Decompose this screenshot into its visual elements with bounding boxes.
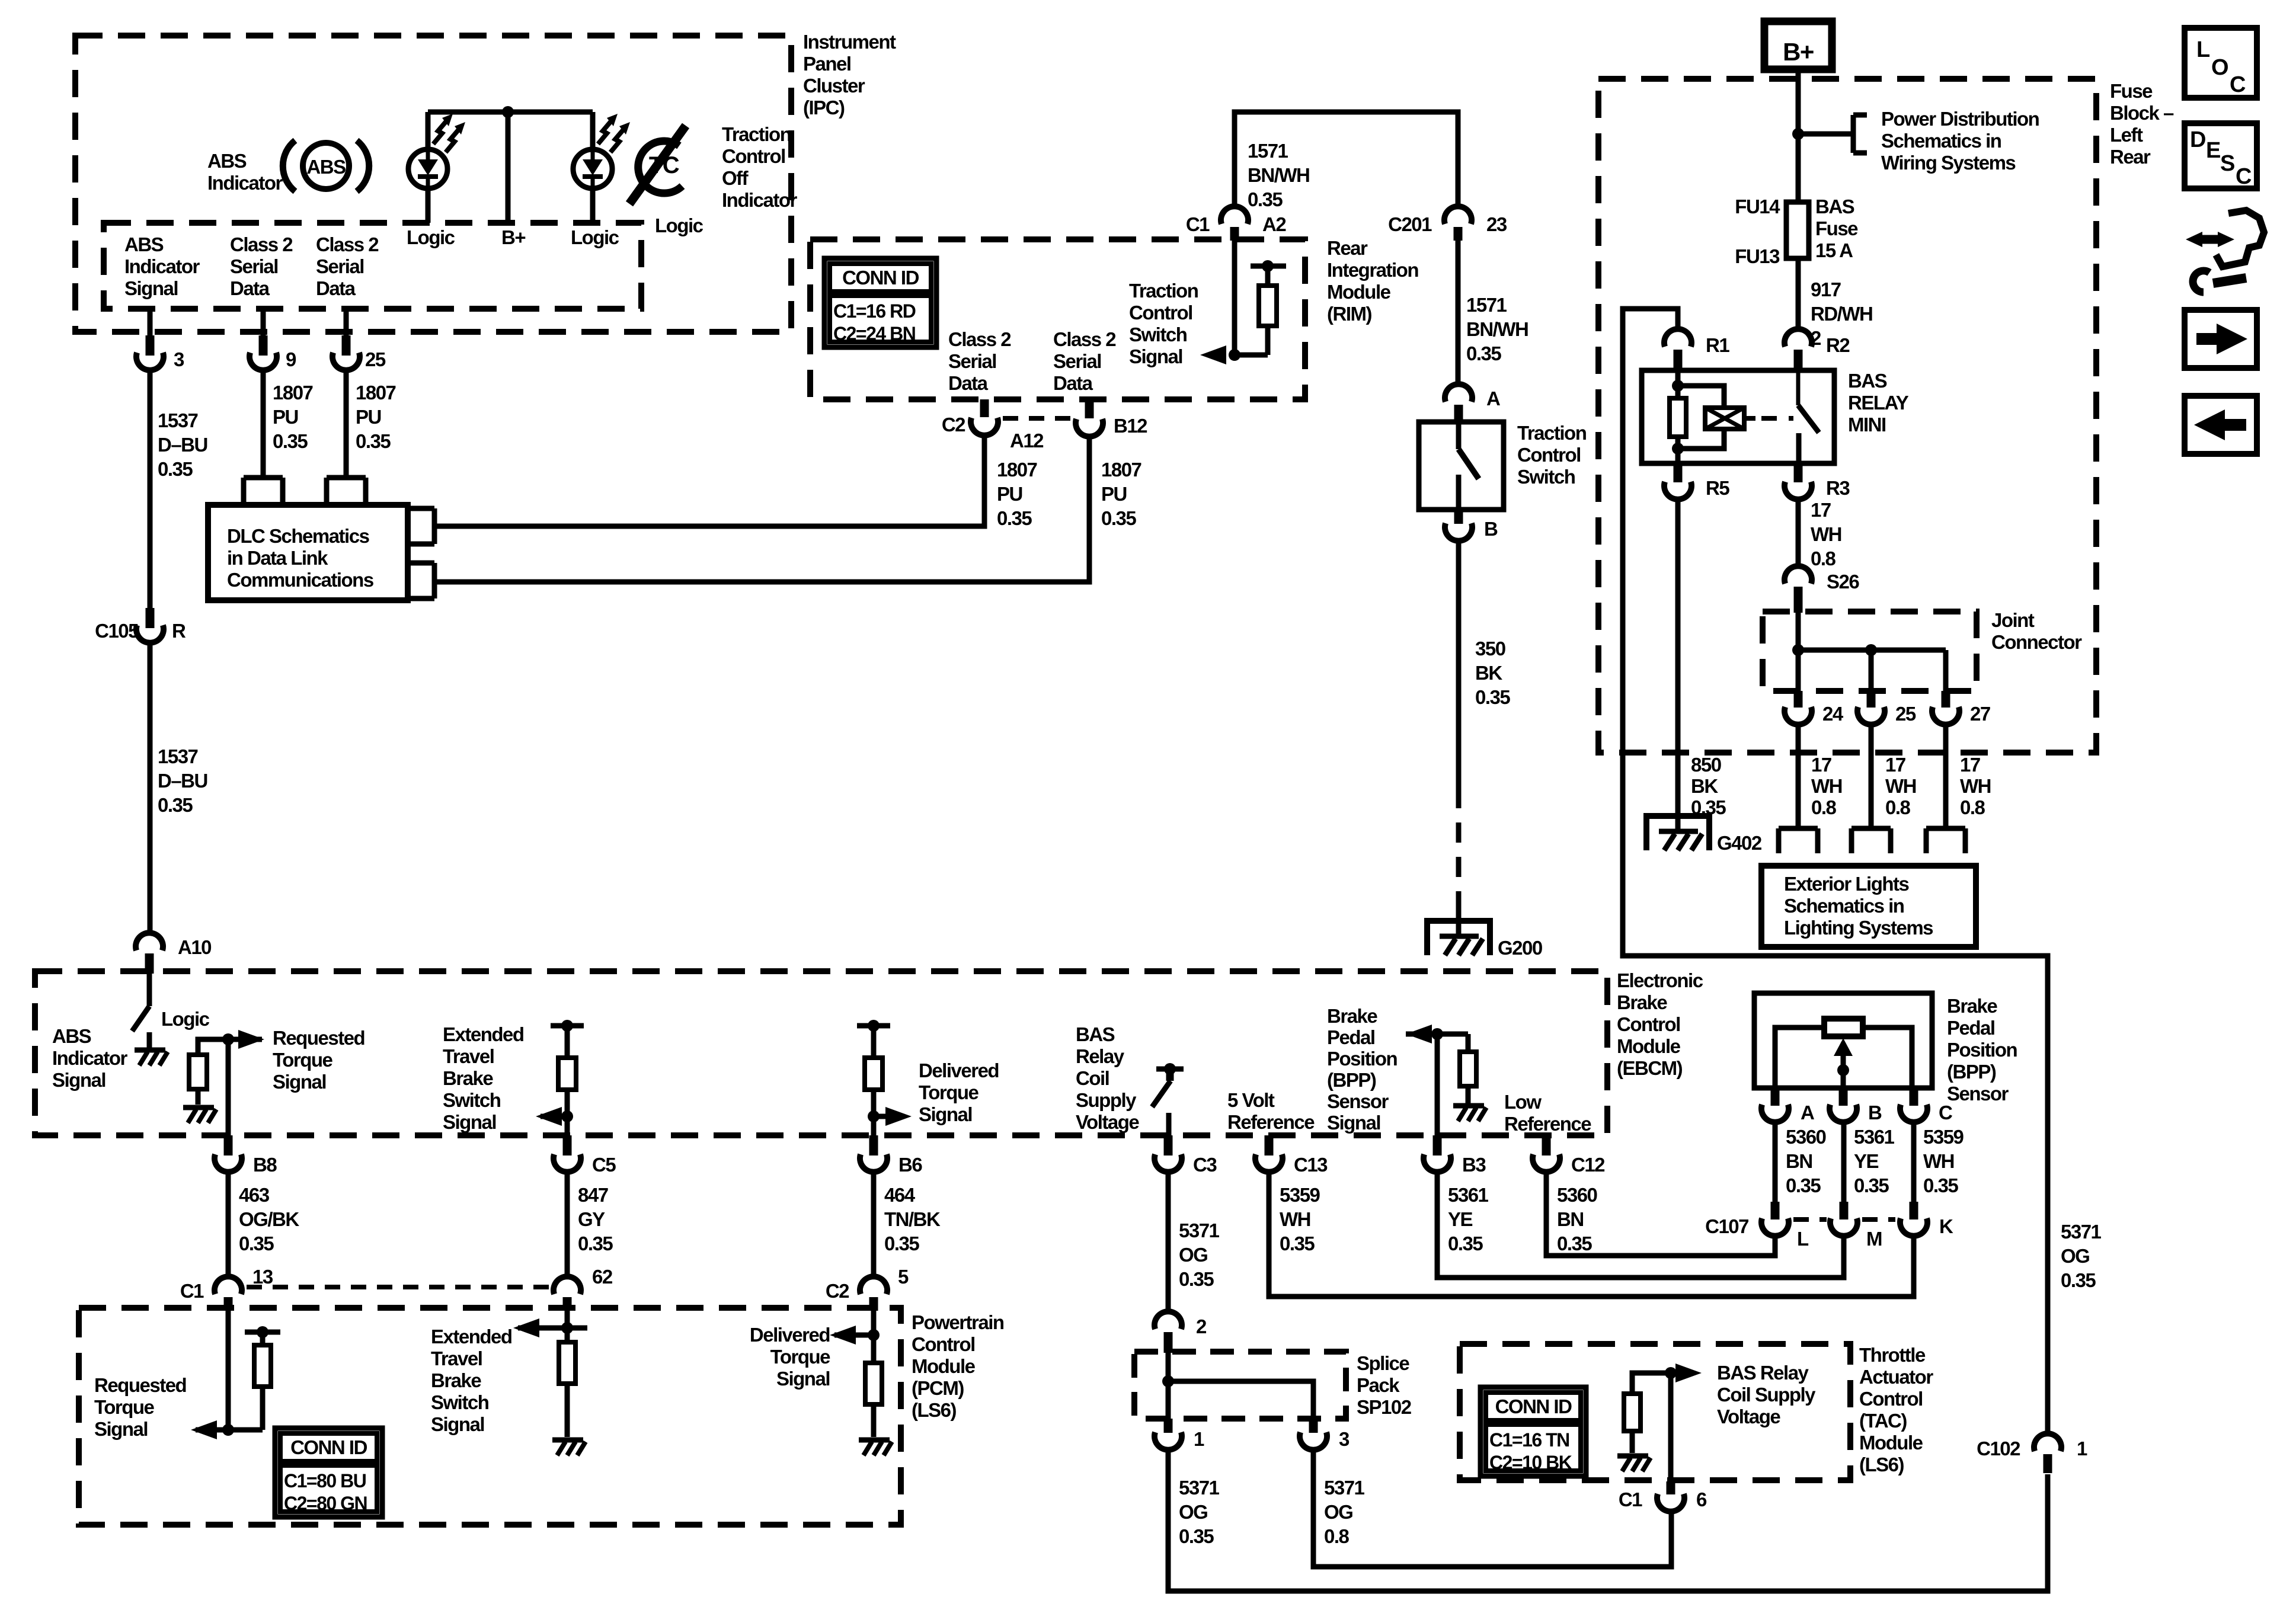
svg-text:Block –: Block – — [2110, 102, 2174, 124]
connector face box inside IPC — [104, 223, 641, 309]
svg-text:(RIM): (RIM) — [1327, 303, 1371, 325]
svg-text:Sensor: Sensor — [1327, 1090, 1389, 1112]
wire label: 5359 WH 0.35 (pin C) — [1923, 1126, 1964, 1196]
label: Brake Pedal Position (BPP) Sensor Signal — [1327, 1005, 1398, 1134]
svg-text:Position: Position — [1327, 1048, 1398, 1070]
svg-text:CONN ID: CONN ID — [842, 267, 919, 289]
svg-text:Communications: Communications — [227, 569, 373, 591]
label: Class 2 Serial Data (RIM B12) — [1053, 328, 1116, 394]
off-page bracket: DLC serial data out (upper) — [408, 508, 434, 544]
svg-text:17: 17 — [1960, 754, 1980, 776]
label: BAS RELAY MINI — [1848, 370, 1909, 436]
wire label: 17 WH 0.8 (24) — [1811, 754, 1842, 818]
legend icon: arrow left box — [2185, 396, 2257, 454]
EBCM pin C5 — [554, 1135, 616, 1176]
svg-text:CONN ID: CONN ID — [290, 1436, 367, 1458]
wire label: 1807 PU 0.35 (pin 25) — [356, 382, 396, 452]
svg-text:L: L — [2196, 37, 2210, 62]
svg-text:PU: PU — [356, 406, 381, 428]
traction switch pin B connector — [1445, 510, 1498, 541]
svg-text:25: 25 — [365, 348, 386, 370]
svg-text:463: 463 — [239, 1184, 270, 1206]
wire: B+ bus between lamps — [428, 112, 593, 149]
svg-text:0.8: 0.8 — [1811, 796, 1837, 818]
module box: Instrument Panel Cluster (IPC) — [75, 36, 791, 332]
svg-text:Signal: Signal — [124, 277, 178, 299]
svg-text:Indicator: Indicator — [124, 255, 200, 277]
RIM pin C2 A12 connector — [942, 399, 1044, 452]
wire label: 850 BK 0.35 — [1691, 754, 1726, 818]
svg-text:Serial: Serial — [948, 350, 996, 372]
module box: Splice Pack SP102 — [1134, 1352, 1346, 1419]
svg-text:Class 2: Class 2 — [230, 233, 293, 255]
PCM pin C1 13 connector — [180, 1266, 273, 1311]
svg-text:1571: 1571 — [1466, 294, 1507, 316]
svg-text:0.35: 0.35 — [1248, 188, 1283, 210]
label: BAS Relay Coil Supply Voltage (EBCM) — [1076, 1023, 1139, 1133]
svg-text:5361: 5361 — [1854, 1126, 1895, 1148]
svg-text:Switch: Switch — [431, 1391, 489, 1413]
label: ABS Indicator (symbol caption) — [207, 150, 283, 194]
wire label: 17 WH 0.8 (27) — [1960, 754, 1991, 818]
svg-text:25: 25 — [1895, 703, 1916, 725]
svg-text:YE: YE — [1448, 1208, 1473, 1230]
label: Splice Pack SP102 — [1357, 1352, 1412, 1418]
wire: B+ to fuse — [1796, 69, 1801, 202]
resistor (extended travel) — [551, 1020, 584, 1138]
svg-text:YE: YE — [1854, 1150, 1879, 1172]
svg-text:0.35: 0.35 — [2061, 1269, 2096, 1291]
svg-text:5 Volt: 5 Volt — [1227, 1089, 1275, 1111]
junction: B+ bus — [502, 106, 514, 118]
wire label: 5371 OG 0.8 (pin 3) — [1324, 1477, 1365, 1547]
svg-text:ABS: ABS — [306, 156, 346, 178]
wire label: 463 OG/BK 0.35 — [239, 1184, 299, 1254]
IPC pin 3 connector — [136, 335, 184, 370]
potentiometer wiper — [1834, 1038, 1853, 1088]
svg-text:C201: C201 — [1388, 213, 1432, 235]
wire: ABS lamp to Logic pin — [426, 188, 431, 223]
EBCM pin B8 — [215, 1135, 277, 1176]
TAC pin C1 6 connector — [1619, 1481, 1707, 1512]
arrow: extended travel (PCM) — [513, 1318, 587, 1337]
arrow: BAS Relay Coil Supply Voltage (TAC) — [1675, 1363, 1702, 1382]
wire: 17 WH relay R3 to S26 — [1796, 500, 1801, 567]
svg-text:Requested: Requested — [273, 1027, 364, 1049]
resistor (relay suppression) — [1670, 398, 1686, 437]
svg-text:(BPP): (BPP) — [1327, 1069, 1376, 1091]
wire: 1807 PU from pin 25 to DLC — [344, 370, 349, 478]
wire: serial data DLC to RIM C2 A12 — [434, 436, 984, 526]
svg-text:Signal: Signal — [431, 1413, 484, 1435]
svg-text:17: 17 — [1811, 754, 1831, 776]
svg-text:3: 3 — [1339, 1428, 1350, 1450]
svg-text:Relay: Relay — [1076, 1045, 1125, 1067]
wire label: 5360 BN 0.35 (C12) — [1557, 1184, 1597, 1254]
svg-text:WH: WH — [1811, 775, 1842, 797]
svg-text:BAS Relay: BAS Relay — [1717, 1362, 1809, 1384]
splice connector S26 — [1785, 566, 1859, 613]
wire label: 5371 OG 0.35 (C102) — [2061, 1221, 2102, 1291]
svg-text:BK: BK — [1475, 662, 1502, 684]
svg-text:5360: 5360 — [1786, 1126, 1826, 1148]
svg-text:Splice: Splice — [1357, 1352, 1409, 1374]
power feed B+ box — [1764, 21, 1832, 69]
legend icon: DESC box — [2185, 123, 2257, 189]
wire: BPP C to C107 K — [1911, 1122, 1917, 1202]
splice pack bus — [1162, 1353, 1313, 1419]
svg-text:847: 847 — [578, 1184, 608, 1206]
svg-text:C2=10 BK: C2=10 BK — [1489, 1452, 1572, 1473]
svg-text:0.8: 0.8 — [1324, 1525, 1350, 1547]
wire label: 1537 D-BU 0.35 (lower) — [158, 745, 207, 816]
label: Rear Integration Module (RIM) — [1327, 237, 1418, 325]
svg-text:G200: G200 — [1498, 937, 1542, 959]
svg-text:(LS6): (LS6) — [1859, 1454, 1904, 1475]
svg-text:Signal: Signal — [443, 1111, 496, 1133]
svg-text:OG: OG — [1179, 1244, 1207, 1266]
svg-text:9: 9 — [286, 348, 296, 370]
EBCM pin B3 — [1424, 1135, 1486, 1176]
svg-text:Fuse: Fuse — [1815, 217, 1858, 239]
svg-text:Class 2: Class 2 — [948, 328, 1011, 350]
svg-text:Wiring Systems: Wiring Systems — [1881, 152, 2015, 174]
svg-text:5361: 5361 — [1448, 1184, 1489, 1206]
relay pin R5 connector — [1664, 463, 1729, 500]
wire: 1807 PU from pin 9 to DLC — [261, 370, 266, 478]
svg-text:0.35: 0.35 — [239, 1233, 274, 1254]
svg-text:17: 17 — [1811, 499, 1831, 521]
resistor (delivered torque) — [857, 1020, 890, 1138]
svg-text:Logic: Logic — [655, 215, 703, 236]
svg-text:Position: Position — [1947, 1039, 2017, 1061]
svg-text:L: L — [1797, 1228, 1809, 1250]
label: Traction Control Off Indicator — [722, 123, 798, 211]
connector row dash L-M — [1793, 1217, 1827, 1222]
module box: Fuse Block - Left Rear — [1598, 79, 2096, 753]
label: Extended Travel Brake Switch Signal (PCM) — [431, 1326, 512, 1435]
svg-text:B6: B6 — [898, 1154, 922, 1176]
svg-text:0.8: 0.8 — [1960, 796, 1985, 818]
svg-text:0.35: 0.35 — [1466, 343, 1501, 364]
svg-text:C2=80 GN: C2=80 GN — [284, 1493, 367, 1514]
svg-text:B+: B+ — [1783, 38, 1814, 66]
svg-text:BAS: BAS — [1076, 1023, 1115, 1045]
svg-text:1807: 1807 — [273, 382, 313, 404]
svg-text:1: 1 — [1194, 1428, 1204, 1450]
ABS indicator lamp symbol — [283, 140, 369, 191]
svg-text:M: M — [1866, 1228, 1882, 1250]
arrow: extended travel (to label) — [536, 1107, 573, 1126]
label: Requested Torque Signal — [273, 1027, 364, 1093]
ground (BPP signal resistor) — [1453, 1106, 1486, 1121]
svg-text:Travel: Travel — [431, 1347, 482, 1369]
svg-text:15 A: 15 A — [1815, 239, 1853, 261]
label: Powertrain Control Module (PCM) (LS6) — [912, 1311, 1004, 1421]
svg-text:WH: WH — [1811, 523, 1841, 545]
label: Traction Control Switch — [1517, 422, 1587, 488]
svg-text:PU: PU — [1101, 483, 1127, 505]
svg-text:0.35: 0.35 — [158, 458, 193, 480]
wire: 5360 BN C12 to C107 L — [1546, 1172, 1775, 1256]
wire: class 2 serial data inside IPC (25) — [344, 309, 349, 335]
svg-text:FU13: FU13 — [1735, 245, 1780, 267]
resistor (PCM requested torque) — [245, 1326, 280, 1430]
svg-text:0.35: 0.35 — [578, 1233, 613, 1254]
wire: 1571 BN/WH C201 to traction control switch — [1456, 241, 1461, 385]
svg-text:C1=16 TN: C1=16 TN — [1489, 1429, 1569, 1451]
svg-text:Signal: Signal — [1327, 1112, 1380, 1134]
svg-text:Class 2: Class 2 — [1053, 328, 1116, 350]
junction: power distribution tap — [1792, 128, 1804, 140]
svg-text:OG/BK: OG/BK — [239, 1208, 299, 1230]
svg-text:TN/BK: TN/BK — [884, 1208, 941, 1230]
svg-text:0.35: 0.35 — [1854, 1174, 1889, 1196]
joint connector pin 24 — [1785, 691, 1844, 725]
svg-text:0.35: 0.35 — [1179, 1525, 1214, 1547]
svg-text:Brake: Brake — [443, 1067, 493, 1089]
svg-text:C105: C105 — [95, 620, 139, 642]
label: Class 2 Serial Data pin (25) — [316, 233, 379, 299]
resistor (PCM extended travel) — [559, 1342, 575, 1437]
connector row dash C2-B12 — [1003, 416, 1072, 421]
RIM pin B12 connector — [1076, 399, 1147, 437]
svg-text:Traction: Traction — [1129, 280, 1198, 302]
label: 5 Volt Reference — [1227, 1089, 1315, 1133]
off-page bracket: DLC input (pin 9 wire) — [244, 478, 283, 505]
svg-text:Signal: Signal — [919, 1103, 972, 1125]
CONN ID table (PCM) — [275, 1428, 382, 1517]
ground (logic switch) — [135, 1050, 168, 1065]
ground G200 — [1427, 921, 1542, 959]
svg-text:Control: Control — [1617, 1013, 1680, 1035]
svg-text:in Data Link: in Data Link — [227, 547, 328, 569]
svg-text:Torque: Torque — [94, 1396, 155, 1418]
arrow: Requested Torque Signal — [238, 1030, 264, 1049]
svg-text:Connector: Connector — [1991, 631, 2082, 653]
svg-text:0.35: 0.35 — [1448, 1233, 1483, 1254]
svg-text:Control: Control — [1859, 1388, 1923, 1410]
svg-text:Signal: Signal — [52, 1069, 105, 1091]
label: Power Distribution Schematics in Wiring Systems — [1881, 108, 2039, 174]
svg-text:BAS: BAS — [1815, 196, 1854, 217]
svg-text:Brake: Brake — [431, 1369, 481, 1391]
label: Throttle Actuator Control (TAC) Module (LS6) — [1859, 1344, 1933, 1475]
IPC pin 25 connector — [332, 335, 386, 370]
svg-text:Extended: Extended — [443, 1023, 524, 1045]
svg-text:D: D — [2190, 127, 2205, 152]
svg-text:CONN ID: CONN ID — [1495, 1395, 1572, 1417]
svg-text:Switch: Switch — [1129, 324, 1187, 345]
relay coil parallel loop — [1678, 386, 1724, 449]
module box: Rear Integration Module (RIM) — [810, 239, 1305, 399]
arrow: Traction Control Switch Signal — [1200, 345, 1268, 364]
wire label: 5361 YE 0.35 (pin B) — [1854, 1126, 1895, 1196]
wire: TAC supply to pin C1 6 — [1668, 1373, 1674, 1481]
svg-text:(IPC): (IPC) — [803, 97, 845, 119]
wire label: 1807 PU 0.35 (B12) — [1101, 459, 1141, 529]
svg-text:B12: B12 — [1114, 415, 1147, 437]
svg-text:Torque: Torque — [273, 1049, 333, 1071]
svg-text:5360: 5360 — [1557, 1184, 1597, 1206]
svg-text:23: 23 — [1486, 213, 1507, 235]
label: Extended Travel Brake Switch Signal (EBCM) — [443, 1023, 524, 1133]
resistor (TAC bas relay coil) — [1624, 1373, 1671, 1453]
IPC pin 9 connector — [250, 335, 296, 370]
svg-text:62: 62 — [592, 1266, 613, 1288]
svg-text:Signal: Signal — [1129, 345, 1182, 367]
svg-text:Switch: Switch — [443, 1089, 501, 1111]
svg-text:R5: R5 — [1706, 477, 1729, 499]
relay mechanical linkage (dashed) — [1744, 416, 1793, 421]
svg-text:Cluster: Cluster — [803, 75, 865, 97]
svg-text:(PCM): (PCM) — [912, 1377, 964, 1399]
svg-text:Logic: Logic — [161, 1008, 210, 1030]
svg-text:0.35: 0.35 — [1557, 1233, 1592, 1254]
svg-text:Module: Module — [1617, 1035, 1681, 1057]
svg-text:R1: R1 — [1706, 334, 1729, 356]
label: BAS Relay Coil Supply Voltage (TAC) — [1717, 1362, 1816, 1427]
svg-text:Serial: Serial — [1053, 350, 1101, 372]
wire label: 1537 D-BU 0.35 (upper) — [158, 409, 207, 480]
svg-text:B: B — [1868, 1102, 1882, 1124]
svg-text:WH: WH — [1280, 1208, 1310, 1230]
svg-text:Travel: Travel — [443, 1045, 494, 1067]
svg-text:27: 27 — [1970, 703, 1990, 725]
svg-text:Panel: Panel — [803, 53, 851, 75]
svg-text:C107: C107 — [1705, 1215, 1748, 1237]
svg-text:1537: 1537 — [158, 409, 198, 431]
connector row dash M-K — [1862, 1217, 1895, 1222]
EBCM pin C13 — [1255, 1135, 1328, 1176]
wire: 5371 OG pin 1 to C102 — [1168, 1450, 2048, 1591]
svg-text:0.35: 0.35 — [997, 507, 1032, 529]
svg-text:Control: Control — [912, 1333, 975, 1355]
wire label: 847 GY 0.35 — [578, 1184, 613, 1254]
junction: TAC bas relay coil — [1665, 1367, 1677, 1379]
wire: relay R1 feed loop — [1623, 309, 2048, 1434]
svg-text:0.35: 0.35 — [1786, 1174, 1821, 1196]
reference box: DLC Schematics in Data Link Communications — [208, 505, 408, 600]
svg-text:0.35: 0.35 — [1923, 1174, 1958, 1196]
PCM pin 62 connector — [554, 1266, 613, 1311]
traction control off LED lamp — [573, 114, 630, 188]
ABS indicator LED lamp — [408, 114, 465, 188]
CONN ID table (TAC) — [1480, 1387, 1586, 1476]
svg-text:Fuse: Fuse — [2110, 80, 2153, 102]
resistor (BPP signal) — [1460, 1034, 1476, 1103]
arrow: delivered torque (to label) — [868, 1107, 912, 1126]
pin label: Logic (ABS lamp) — [407, 226, 455, 248]
svg-text:Powertrain: Powertrain — [912, 1311, 1004, 1333]
svg-text:Data: Data — [230, 277, 270, 299]
svg-text:C: C — [2230, 72, 2246, 97]
wire: 850 BK relay R5 to G402 — [1675, 500, 1681, 832]
svg-text:Requested: Requested — [94, 1374, 186, 1396]
off-page bracket: exterior lights (24) — [1779, 828, 1818, 853]
svg-text:Power Distribution: Power Distribution — [1881, 108, 2039, 130]
svg-text:B: B — [1484, 518, 1498, 540]
svg-text:RD/WH: RD/WH — [1811, 303, 1872, 325]
svg-text:Left: Left — [2110, 124, 2143, 146]
svg-text:Control: Control — [722, 145, 785, 167]
pin label: Logic (TC symbol) — [655, 215, 703, 236]
svg-text:A12: A12 — [1010, 430, 1044, 452]
wire: BPP signal to pin B3 — [1435, 1034, 1440, 1138]
ground (PCM extended travel) — [552, 1440, 586, 1455]
svg-text:R: R — [172, 620, 186, 642]
svg-text:ABS: ABS — [207, 150, 247, 172]
svg-text:RELAY: RELAY — [1848, 392, 1909, 414]
splice pack pin 1 connector — [1155, 1419, 1204, 1450]
connector C107 L — [1705, 1202, 1809, 1250]
logic switch (ABS indicator driver) — [132, 974, 149, 1048]
wire: 1537 D-BU from pin 3 to C105 — [148, 370, 153, 608]
wire: 917 RD/WH fuse to relay R2 — [1796, 258, 1801, 329]
EBCM pin C12 — [1533, 1135, 1605, 1176]
label: ABS Indicator Signal (EBCM) — [52, 1025, 128, 1091]
svg-text:Data: Data — [1053, 372, 1093, 394]
svg-text:C: C — [1939, 1102, 1952, 1124]
svg-text:6: 6 — [1696, 1489, 1707, 1510]
svg-text:BN/WH: BN/WH — [1466, 318, 1528, 340]
wire: ABS indicator signal inside IPC — [148, 309, 153, 335]
EBCM pin B6 — [860, 1135, 922, 1176]
svg-text:Logic: Logic — [571, 226, 619, 248]
EBCM pin C3 — [1155, 1135, 1217, 1176]
pin label: Logic (TC lamp) — [571, 226, 619, 248]
svg-text:WH: WH — [1960, 775, 1991, 797]
svg-text:C1: C1 — [180, 1280, 204, 1302]
svg-text:0.35: 0.35 — [884, 1233, 919, 1254]
pin label: B+ — [501, 226, 525, 248]
wire: 1571 BN/WH RIM C1 A2 to C201 — [1235, 112, 1458, 207]
EBCM pin A10 connector — [136, 933, 211, 974]
arrow: requested torque (PCM) — [191, 1420, 263, 1439]
svg-text:A: A — [1486, 388, 1500, 409]
traction control off (TC) symbol — [629, 126, 686, 204]
label: Low Reference — [1504, 1091, 1591, 1135]
svg-text:Off: Off — [722, 167, 749, 189]
off-page bracket: exterior lights (25) — [1851, 828, 1891, 853]
svg-text:SP102: SP102 — [1357, 1396, 1412, 1418]
svg-text:C1=80 BU: C1=80 BU — [284, 1470, 366, 1491]
svg-text:5359: 5359 — [1280, 1184, 1320, 1206]
svg-text:OG: OG — [1179, 1501, 1207, 1523]
resistor (requested torque pull-up) — [189, 1039, 262, 1105]
svg-text:Schematics in: Schematics in — [1881, 130, 2001, 152]
svg-text:(EBCM): (EBCM) — [1617, 1057, 1683, 1079]
wire: 17 WH pin 25 down — [1869, 725, 1874, 828]
svg-text:Serial: Serial — [316, 255, 364, 277]
svg-text:Data: Data — [948, 372, 989, 394]
label: Electronic Brake Control Module (EBCM) — [1617, 969, 1703, 1079]
svg-text:1537: 1537 — [158, 745, 198, 767]
label: Delivered Torque Signal (PCM) — [750, 1324, 830, 1390]
arrow: BPP sensor signal — [1406, 1025, 1468, 1044]
wire label: 17 WH 0.8 (25) — [1885, 754, 1916, 818]
svg-text:1: 1 — [2077, 1438, 2087, 1459]
svg-text:Electronic: Electronic — [1617, 969, 1703, 991]
svg-text:BK: BK — [1691, 775, 1718, 797]
svg-text:Actuator: Actuator — [1859, 1366, 1933, 1388]
splice pack pin 3 connector — [1300, 1419, 1350, 1450]
joint connector pin 25 — [1857, 691, 1916, 725]
svg-text:B8: B8 — [253, 1154, 277, 1176]
svg-text:1807: 1807 — [997, 459, 1037, 481]
svg-text:Pedal: Pedal — [1327, 1026, 1375, 1048]
svg-text:Reference: Reference — [1504, 1113, 1591, 1135]
